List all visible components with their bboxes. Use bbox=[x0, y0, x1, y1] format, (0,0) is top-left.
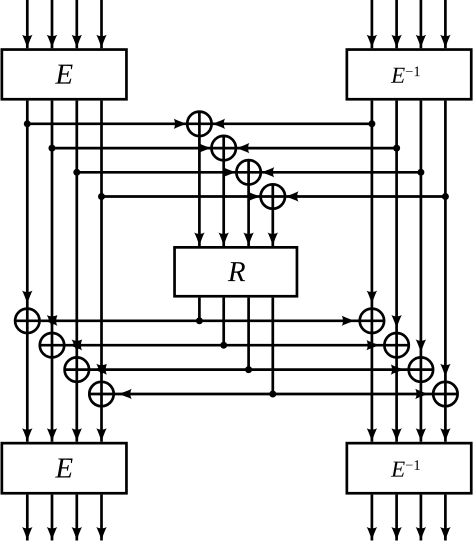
wire trunk L1 from E to bottom E bbox=[26, 101, 29, 442]
wire U2 output into R bbox=[222, 160, 225, 246]
wire bottom output L1 bbox=[26, 495, 29, 541]
wire top input L1 bbox=[26, 0, 29, 48]
junction dot middle M1 bbox=[196, 317, 203, 324]
wire lower horizontal 4 bbox=[89, 393, 457, 396]
svg-text:E: E bbox=[54, 59, 73, 91]
xor lower-left D1 bbox=[15, 309, 39, 333]
wire upper horizontal right 1 bbox=[212, 122, 372, 125]
wire U1 output into R bbox=[198, 136, 201, 246]
wire bottom output R3 bbox=[420, 495, 423, 541]
xor lower-right X3 bbox=[409, 357, 433, 381]
wire trunk R4 from E^-1 to bottom E^-1 bbox=[444, 101, 447, 442]
wire trunk L2 from E to bottom E bbox=[51, 101, 54, 442]
box R (middle) bbox=[175, 247, 297, 296]
junction dot middle M2 bbox=[220, 342, 227, 349]
xor lower-right X4 bbox=[433, 382, 457, 406]
junction dot middle M4 bbox=[269, 391, 276, 398]
wire upper horizontal left 2 bbox=[52, 147, 212, 150]
wire trunk R3 from E^-1 to bottom E^-1 bbox=[420, 101, 423, 442]
xor lower-right X2 bbox=[384, 333, 408, 357]
wire R output 1 bbox=[198, 298, 201, 321]
wire bottom output R2 bbox=[395, 495, 398, 541]
xor lower-right X1 bbox=[360, 309, 384, 333]
wire trunk L3 from E to bottom E bbox=[75, 101, 78, 442]
wire upper horizontal right 4 bbox=[285, 195, 445, 198]
svg-text:E: E bbox=[54, 452, 73, 484]
wire R output 2 bbox=[222, 298, 225, 346]
wire U3 output into R bbox=[247, 185, 250, 247]
wire upper horizontal right 3 bbox=[261, 171, 421, 174]
box E (top-left) bbox=[2, 50, 127, 100]
junction dot left L2 bbox=[49, 145, 56, 152]
wire top input L3 bbox=[75, 0, 78, 48]
wire R output 4 bbox=[271, 298, 274, 394]
wire trunk L4 from E to bottom E bbox=[100, 101, 103, 442]
wire top input R4 bbox=[444, 0, 447, 48]
xor upper U2 bbox=[212, 136, 236, 160]
xor lower-left D4 bbox=[89, 382, 113, 406]
junction dot left L3 bbox=[73, 169, 80, 176]
wire top input R3 bbox=[420, 0, 423, 48]
junction dot right R3 bbox=[417, 169, 424, 176]
wire bottom output R1 bbox=[371, 495, 374, 541]
wire upper horizontal left 3 bbox=[77, 171, 237, 174]
wire top input R1 bbox=[371, 0, 374, 48]
wire lower horizontal 1 bbox=[15, 319, 384, 322]
junction dot right R1 bbox=[368, 120, 375, 127]
svg-text:R: R bbox=[227, 256, 246, 288]
wire lower horizontal 2 bbox=[40, 344, 409, 347]
wire trunk R1 from E^-1 to bottom E^-1 bbox=[371, 101, 374, 442]
wire bottom output L2 bbox=[51, 495, 54, 541]
xor upper U3 bbox=[236, 160, 260, 184]
junction dot left L4 bbox=[98, 193, 105, 200]
box E^-1 (bottom-right) bbox=[347, 443, 471, 493]
box E (bottom-left) bbox=[2, 443, 127, 493]
wire lower horizontal 3 bbox=[65, 368, 434, 371]
junction dot right R4 bbox=[442, 193, 449, 200]
wire bottom output R4 bbox=[444, 495, 447, 541]
wire bottom output L4 bbox=[100, 495, 103, 541]
wire trunk R2 from E^-1 to bottom E^-1 bbox=[395, 101, 398, 442]
xor lower-left D2 bbox=[40, 333, 64, 357]
wire upper horizontal left 1 bbox=[27, 122, 187, 125]
wire top input R2 bbox=[395, 0, 398, 48]
xor lower-left D3 bbox=[65, 357, 89, 381]
wire bottom output L3 bbox=[75, 495, 78, 541]
wire upper horizontal right 2 bbox=[236, 147, 397, 150]
wire upper horizontal left 4 bbox=[102, 195, 261, 198]
xor upper U4 bbox=[261, 184, 285, 208]
junction dot middle M3 bbox=[245, 366, 252, 373]
junction dot right R2 bbox=[393, 145, 400, 152]
xor upper U1 bbox=[187, 112, 211, 136]
box E^-1 (top-right) bbox=[347, 50, 471, 100]
wire top input L4 bbox=[100, 0, 103, 48]
wire R output 3 bbox=[247, 298, 250, 370]
junction dot left L1 bbox=[24, 120, 31, 127]
wire top input L2 bbox=[51, 0, 54, 48]
wire U4 output into R bbox=[271, 209, 274, 246]
